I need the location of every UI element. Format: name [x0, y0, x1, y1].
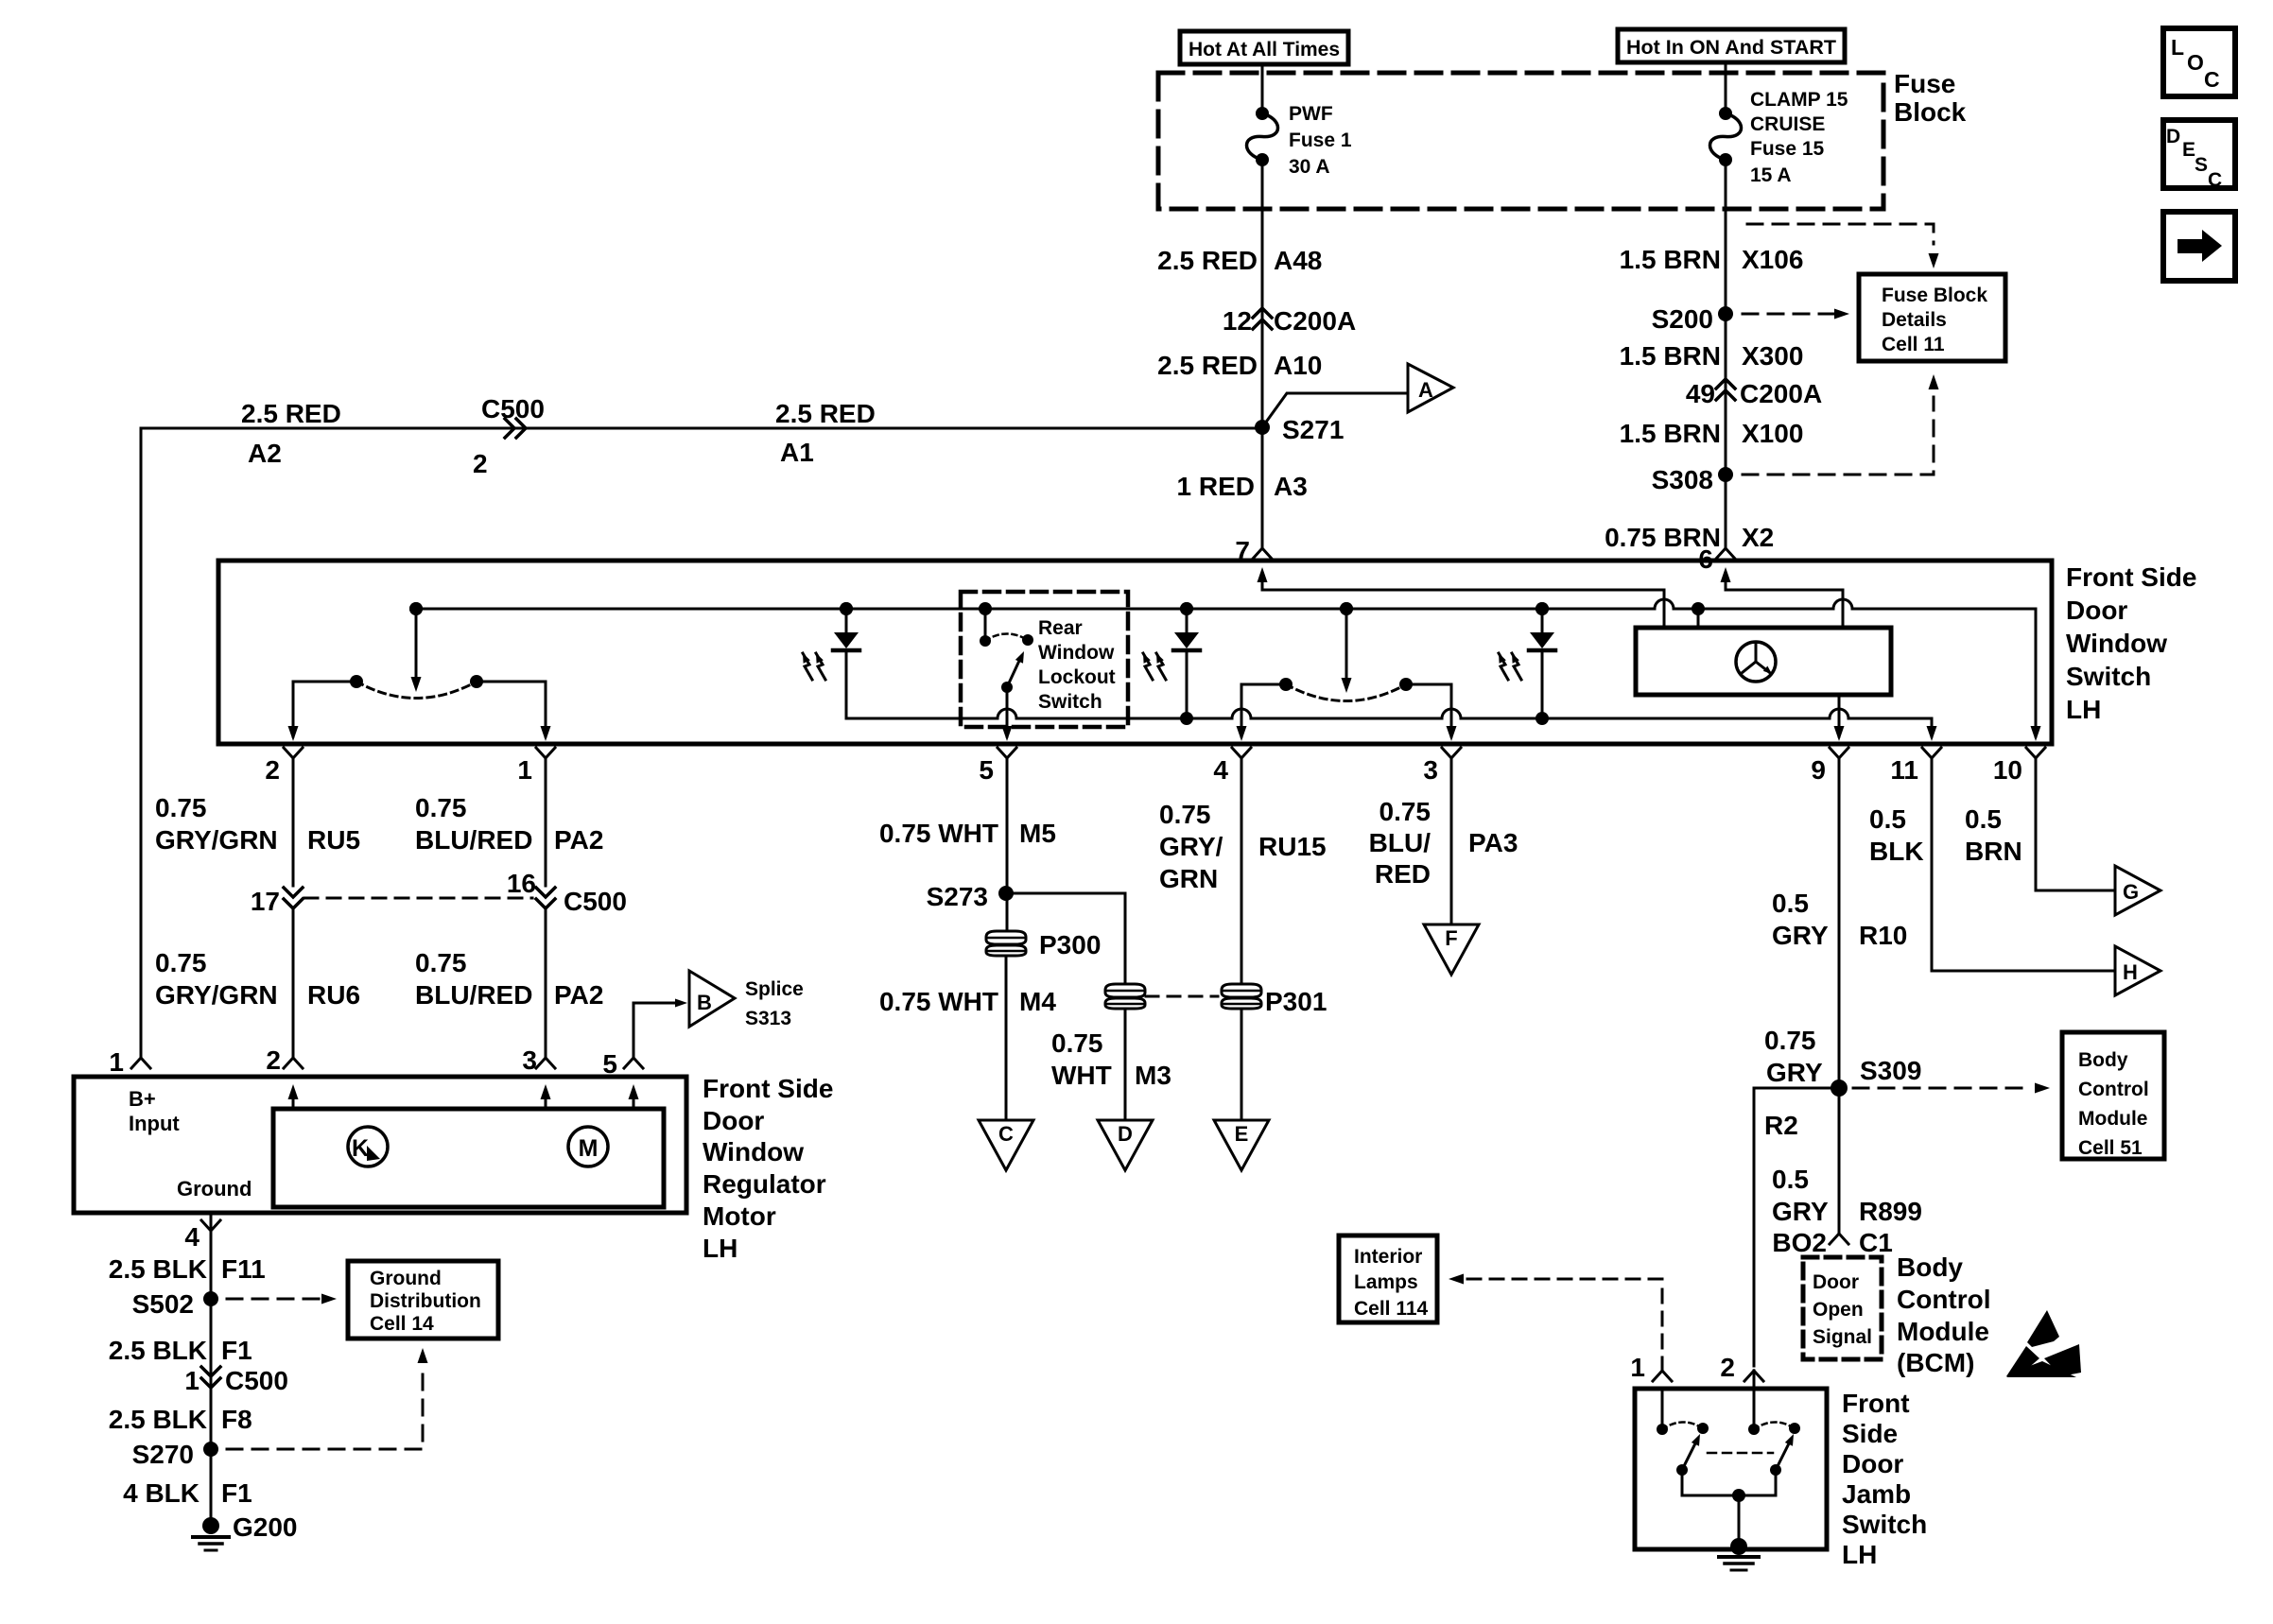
svg-text:C1: C1: [1859, 1228, 1893, 1257]
svg-text:BLU/: BLU/: [1369, 828, 1431, 857]
svg-text:E: E: [1235, 1122, 1249, 1146]
svg-text:P301: P301: [1265, 987, 1327, 1016]
svg-text:2: 2: [266, 1045, 281, 1075]
svg-text:Input: Input: [129, 1112, 180, 1135]
svg-text:Fuse Block: Fuse Block: [1882, 285, 1987, 306]
svg-text:Ground: Ground: [177, 1177, 252, 1201]
svg-text:RED: RED: [1375, 859, 1431, 889]
svg-text:GRN: GRN: [1159, 864, 1218, 893]
svg-text:Fuse: Fuse: [1894, 69, 1955, 98]
svg-text:GRY: GRY: [1772, 921, 1829, 950]
svg-text:Door: Door: [2066, 596, 2127, 625]
svg-text:0.75: 0.75: [155, 948, 207, 977]
svg-text:Switch: Switch: [2066, 662, 2151, 691]
svg-text:Switch: Switch: [1038, 691, 1102, 713]
svg-text:Front Side: Front Side: [703, 1074, 833, 1103]
svg-text:C500: C500: [481, 394, 545, 423]
svg-text:RU6: RU6: [307, 980, 360, 1010]
svg-text:4 BLK: 4 BLK: [123, 1478, 200, 1508]
svg-text:30 A: 30 A: [1289, 156, 1330, 178]
svg-text:Fuse 15: Fuse 15: [1750, 138, 1825, 160]
svg-text:D: D: [2166, 126, 2180, 147]
svg-text:X106: X106: [1742, 245, 1803, 274]
svg-text:F1: F1: [221, 1336, 252, 1365]
svg-text:11: 11: [1890, 755, 1918, 785]
svg-text:(BCM): (BCM): [1897, 1348, 1974, 1377]
svg-text:2.5 BLK: 2.5 BLK: [109, 1336, 207, 1365]
svg-text:A2: A2: [248, 439, 282, 468]
svg-text:0.75: 0.75: [1379, 797, 1431, 826]
svg-text:G: G: [2123, 880, 2139, 904]
svg-text:Module: Module: [1897, 1317, 1989, 1346]
svg-text:4: 4: [1213, 755, 1228, 785]
svg-text:0.75: 0.75: [1159, 800, 1211, 829]
svg-text:CLAMP 15: CLAMP 15: [1750, 89, 1848, 111]
svg-text:Module: Module: [2078, 1108, 2148, 1130]
svg-text:PWF: PWF: [1289, 103, 1333, 125]
svg-text:C: C: [998, 1122, 1014, 1146]
svg-text:GRY/GRN: GRY/GRN: [155, 980, 278, 1010]
svg-text:S273: S273: [927, 882, 988, 911]
svg-text:S502: S502: [132, 1289, 194, 1319]
svg-text:BLK: BLK: [1869, 837, 1924, 866]
svg-text:M5: M5: [1019, 819, 1056, 848]
svg-text:0.75: 0.75: [415, 793, 467, 822]
svg-text:PA3: PA3: [1468, 828, 1518, 857]
svg-text:Door: Door: [703, 1106, 764, 1135]
svg-text:BLU/RED: BLU/RED: [415, 980, 532, 1010]
svg-text:Body: Body: [2078, 1049, 2128, 1071]
svg-text:Fuse 1: Fuse 1: [1289, 130, 1352, 151]
svg-text:0.75: 0.75: [1764, 1026, 1816, 1055]
svg-text:3: 3: [522, 1045, 537, 1075]
svg-text:1.5 BRN: 1.5 BRN: [1620, 245, 1721, 274]
svg-text:Jamb: Jamb: [1842, 1479, 1911, 1509]
svg-text:P300: P300: [1039, 930, 1101, 959]
svg-text:X2: X2: [1742, 523, 1774, 552]
svg-text:2: 2: [1720, 1353, 1735, 1382]
svg-text:E: E: [2182, 139, 2195, 161]
svg-text:17: 17: [251, 887, 280, 916]
svg-text:GRY: GRY: [1766, 1058, 1823, 1087]
svg-text:Cell 11: Cell 11: [1882, 334, 1945, 355]
svg-text:F1: F1: [221, 1478, 252, 1508]
svg-text:S: S: [2195, 154, 2208, 176]
svg-text:0.75 WHT: 0.75 WHT: [879, 819, 998, 848]
svg-text:K: K: [352, 1135, 369, 1162]
svg-text:BO2: BO2: [1772, 1228, 1827, 1257]
svg-text:3: 3: [1423, 755, 1438, 785]
svg-text:C200A: C200A: [1740, 379, 1822, 408]
svg-text:2.5 BLK: 2.5 BLK: [109, 1254, 207, 1284]
svg-text:Signal: Signal: [1813, 1326, 1872, 1348]
svg-text:GRY/: GRY/: [1159, 832, 1223, 861]
svg-text:2.5 RED: 2.5 RED: [1157, 246, 1258, 275]
svg-text:0.75: 0.75: [415, 948, 467, 977]
svg-text:Front Side: Front Side: [2066, 562, 2196, 592]
svg-text:PA2: PA2: [554, 825, 603, 855]
svg-text:Interior: Interior: [1354, 1246, 1422, 1268]
svg-text:M3: M3: [1135, 1061, 1171, 1090]
svg-text:Hot In ON And START: Hot In ON And START: [1626, 37, 1836, 59]
svg-text:C: C: [2204, 67, 2220, 92]
svg-text:Lamps: Lamps: [1354, 1271, 1418, 1293]
svg-text:LH: LH: [2066, 695, 2101, 724]
svg-text:4: 4: [184, 1222, 200, 1252]
svg-text:Control: Control: [1897, 1285, 1991, 1314]
svg-text:0.75 WHT: 0.75 WHT: [879, 987, 998, 1016]
svg-text:G200: G200: [233, 1512, 298, 1542]
svg-text:Lockout: Lockout: [1038, 666, 1116, 688]
svg-text:2.5 RED: 2.5 RED: [775, 399, 876, 428]
svg-text:Side: Side: [1842, 1419, 1898, 1448]
svg-text:LH: LH: [1842, 1540, 1877, 1569]
svg-text:Switch: Switch: [1842, 1510, 1927, 1539]
svg-text:C500: C500: [564, 887, 627, 916]
svg-text:BRN: BRN: [1965, 837, 2022, 866]
svg-text:WHT: WHT: [1051, 1061, 1112, 1090]
svg-text:1: 1: [1630, 1353, 1645, 1382]
svg-text:Regulator: Regulator: [703, 1169, 826, 1199]
svg-text:M4: M4: [1019, 987, 1056, 1016]
svg-text:PA2: PA2: [554, 980, 603, 1010]
svg-text:49: 49: [1686, 379, 1715, 408]
svg-text:1: 1: [184, 1366, 200, 1395]
svg-text:S308: S308: [1652, 465, 1713, 494]
svg-text:2: 2: [473, 449, 488, 478]
svg-text:1: 1: [109, 1047, 124, 1077]
svg-text:D: D: [1118, 1122, 1133, 1146]
svg-text:Control: Control: [2078, 1079, 2149, 1100]
svg-text:1 RED: 1 RED: [1177, 472, 1255, 501]
svg-text:1.5 BRN: 1.5 BRN: [1620, 341, 1721, 371]
svg-text:LH: LH: [703, 1234, 737, 1263]
svg-text:5: 5: [979, 755, 994, 785]
svg-text:0.5: 0.5: [1772, 1165, 1809, 1194]
svg-text:RU5: RU5: [307, 825, 360, 855]
svg-text:A: A: [1418, 378, 1433, 402]
svg-text:2: 2: [265, 755, 280, 785]
svg-text:F8: F8: [221, 1405, 252, 1434]
svg-text:O: O: [2187, 50, 2204, 75]
svg-text:Door: Door: [1813, 1271, 1859, 1293]
svg-text:B+: B+: [129, 1087, 156, 1111]
svg-text:Splice: Splice: [745, 978, 804, 1000]
svg-text:C: C: [2208, 169, 2222, 191]
svg-text:F11: F11: [221, 1254, 266, 1284]
svg-text:Motor: Motor: [703, 1201, 776, 1231]
svg-text:Details: Details: [1882, 309, 1947, 331]
svg-text:R2: R2: [1764, 1111, 1798, 1140]
svg-text:A48: A48: [1274, 246, 1322, 275]
svg-text:0.5: 0.5: [1869, 804, 1906, 834]
svg-text:Door: Door: [1842, 1449, 1903, 1478]
svg-text:CRUISE: CRUISE: [1750, 113, 1825, 135]
svg-text:S313: S313: [745, 1008, 791, 1029]
svg-text:Open: Open: [1813, 1299, 1864, 1321]
svg-text:10: 10: [1993, 755, 2022, 785]
svg-text:9: 9: [1811, 755, 1826, 785]
svg-text:Cell 14: Cell 14: [370, 1313, 434, 1335]
svg-text:S200: S200: [1652, 304, 1713, 334]
svg-text:BLU/RED: BLU/RED: [415, 825, 532, 855]
svg-text:X100: X100: [1742, 419, 1803, 448]
svg-text:0.5: 0.5: [1772, 889, 1809, 918]
svg-text:1: 1: [517, 755, 532, 785]
svg-text:1.5 BRN: 1.5 BRN: [1620, 419, 1721, 448]
svg-text:A1: A1: [780, 438, 814, 467]
svg-text:C500: C500: [225, 1366, 288, 1395]
svg-text:GRY/GRN: GRY/GRN: [155, 825, 278, 855]
svg-text:Distribution: Distribution: [370, 1290, 481, 1312]
svg-text:Body: Body: [1897, 1253, 1963, 1282]
svg-text:S309: S309: [1860, 1056, 1921, 1085]
svg-text:A3: A3: [1274, 472, 1308, 501]
svg-text:A10: A10: [1274, 351, 1322, 380]
svg-text:Front: Front: [1842, 1389, 1910, 1418]
svg-text:Rear: Rear: [1038, 617, 1083, 639]
svg-text:S271: S271: [1282, 415, 1344, 444]
svg-text:0.75 BRN: 0.75 BRN: [1605, 523, 1721, 552]
svg-text:Window: Window: [703, 1137, 804, 1166]
svg-text:Window: Window: [2066, 629, 2167, 658]
svg-text:RU15: RU15: [1258, 832, 1327, 861]
svg-text:Window: Window: [1038, 642, 1115, 664]
svg-text:15 A: 15 A: [1750, 164, 1792, 186]
svg-text:R899: R899: [1859, 1197, 1922, 1226]
svg-text:M: M: [579, 1135, 599, 1162]
svg-text:2.5 BLK: 2.5 BLK: [109, 1405, 207, 1434]
svg-text:C200A: C200A: [1274, 306, 1356, 336]
svg-text:12: 12: [1223, 306, 1252, 336]
svg-text:L: L: [2171, 35, 2184, 60]
svg-text:Ground: Ground: [370, 1268, 442, 1289]
svg-text:2.5 RED: 2.5 RED: [1157, 351, 1258, 380]
svg-text:X300: X300: [1742, 341, 1803, 371]
svg-text:0.5: 0.5: [1965, 804, 2002, 834]
svg-text:Hot At All Times: Hot At All Times: [1189, 39, 1340, 60]
svg-text:16: 16: [507, 869, 536, 898]
svg-text:R10: R10: [1859, 921, 1907, 950]
svg-text:S270: S270: [132, 1440, 194, 1469]
svg-text:GRY: GRY: [1772, 1197, 1829, 1226]
svg-text:0.75: 0.75: [1051, 1028, 1103, 1058]
svg-text:Cell 51: Cell 51: [2078, 1137, 2143, 1159]
svg-text:H: H: [2123, 960, 2138, 984]
svg-text:B: B: [697, 991, 712, 1014]
svg-text:Block: Block: [1894, 97, 1967, 127]
svg-text:2.5 RED: 2.5 RED: [241, 399, 341, 428]
svg-text:5: 5: [602, 1049, 617, 1079]
svg-text:0.75: 0.75: [155, 793, 207, 822]
svg-text:F: F: [1445, 926, 1457, 950]
svg-text:Cell 114: Cell 114: [1354, 1298, 1429, 1320]
